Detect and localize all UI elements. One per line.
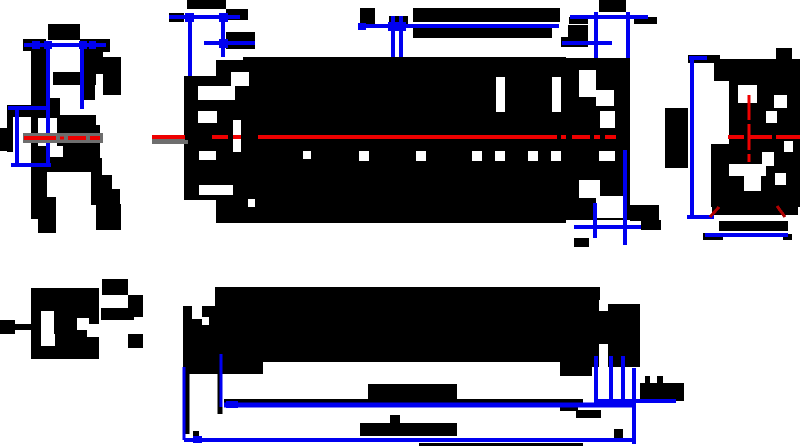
right view dim lines [687, 57, 788, 235]
right view black silhouette [665, 55, 800, 240]
right assembly [566, 58, 630, 220]
left view dim line top [24, 45, 106, 163]
roller body [216, 60, 566, 223]
bottom dim line 1 [224, 403, 636, 408]
bottom dim text blob 2 [193, 415, 623, 446]
right dim lines [562, 12, 648, 79]
center dim line [361, 16, 559, 58]
left view dim bracket left [8, 108, 51, 165]
bottom dim short line [595, 399, 676, 403]
bottom dims: extension verticals [187, 367, 220, 434]
right view corner chamfer marks [710, 206, 785, 217]
bottom dim text blob 1 [224, 383, 684, 418]
left dim ticks [185, 13, 228, 48]
shaft stub halo left [152, 139, 184, 144]
left view dim ticks [32, 41, 96, 49]
white notches right assembly [579, 70, 623, 218]
left view centerline halo [23, 133, 103, 143]
white dots row lower shell [303, 151, 561, 161]
right view top blob [776, 48, 792, 60]
right assembly chamfer text [574, 238, 589, 247]
right dim text blobs [561, 0, 657, 47]
center dim text blobs [360, 8, 560, 38]
bottom dim line 2 [184, 438, 634, 442]
center dim ticks [358, 22, 406, 31]
centerline text interruptions [185, 134, 258, 140]
bearing block left [184, 76, 216, 200]
left dim lines [169, 17, 255, 79]
white notches left block [198, 72, 255, 207]
main centerline [152, 135, 616, 139]
left dim text blobs [169, 0, 255, 49]
left view white cutouts [38, 118, 91, 197]
bottom dim line 1 arrow [226, 401, 238, 408]
left view centerline [24, 136, 100, 140]
right lower dim text [641, 220, 661, 230]
bottom dim line 2 arrow [193, 436, 202, 443]
left view body [0, 51, 121, 233]
white slots upper shell [496, 77, 561, 112]
main centerline halo [152, 139, 188, 144]
right lower dim lines [574, 150, 660, 245]
right view spoke holes [729, 85, 793, 191]
left view top blob [23, 24, 110, 52]
right view crosshair [728, 95, 800, 162]
